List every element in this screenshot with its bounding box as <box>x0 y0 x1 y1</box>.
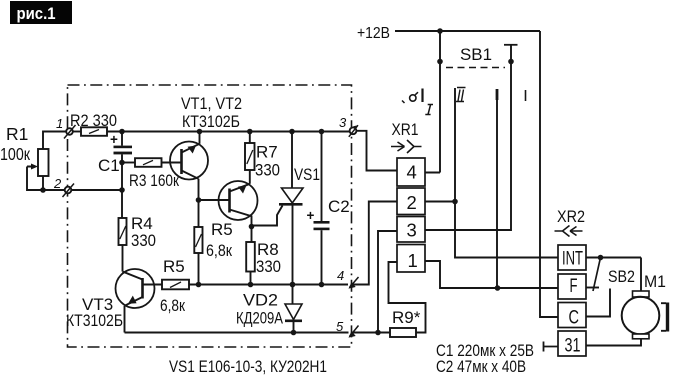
svg-text:КТ3102Б: КТ3102Б <box>182 112 240 131</box>
wire lower rail <box>125 332 349 334</box>
svg-text:330: 330 <box>256 257 281 276</box>
wire top rail + <box>107 131 350 133</box>
wire SB1 I contact down to F line <box>496 89 498 288</box>
transistor VT1 <box>170 94 242 180</box>
wire bottom rail <box>189 284 348 286</box>
connector XR2 pin INT <box>558 245 586 270</box>
wire VT1 emitter to rail <box>199 132 201 144</box>
svg-text:2: 2 <box>407 192 417 213</box>
diode VD2 КД209А <box>236 285 302 333</box>
connector XR1 pin 4 <box>397 158 425 186</box>
node contact 2 branch junction <box>119 187 125 193</box>
svg-text:VS1 Е106-10-3, КУ202Н1: VS1 Е106-10-3, КУ202Н1 <box>169 357 327 376</box>
connector XR2 <box>555 207 586 237</box>
node 1 (contact 1) <box>56 116 76 139</box>
wire R1 bottom <box>42 176 44 190</box>
node F line junction <box>495 285 501 291</box>
svg-text:рис.1: рис.1 <box>17 4 56 23</box>
node pin2 II junction <box>452 199 458 205</box>
resistor R3 160к <box>122 158 182 190</box>
svg-text:F: F <box>570 276 578 297</box>
thyristor VS1 <box>252 132 321 285</box>
svg-text:R9*: R9* <box>392 308 421 327</box>
dash-dot enclosure border <box>68 85 352 347</box>
svg-text:C: C <box>569 308 580 329</box>
svg-text:М1: М1 <box>644 272 666 291</box>
wire XR2 C to SB2 contact <box>586 289 610 317</box>
svg-text:100к: 100к <box>0 144 30 164</box>
connector XR2 pin 31 <box>558 331 586 357</box>
wire +12В to XR1 pin 4 <box>425 31 440 173</box>
wire left column down to R4 <box>121 163 123 219</box>
node VS1 anode rail junction <box>289 129 295 135</box>
capacitor C2 (polarized) <box>307 132 350 285</box>
node R7 rail junction <box>247 129 253 135</box>
svg-text:3: 3 <box>407 220 417 241</box>
svg-text:КТ3102Б: КТ3102Б <box>66 311 123 330</box>
svg-text:330: 330 <box>131 231 156 250</box>
svg-text:4: 4 <box>337 268 344 283</box>
wire VT3 collector to R4 <box>122 245 124 272</box>
svg-text:31: 31 <box>565 336 581 357</box>
wire VT1 collector down <box>198 179 200 200</box>
node 5 (contact 5) <box>336 319 359 338</box>
motor M1 <box>586 258 668 346</box>
resistor R2 330 <box>70 111 117 136</box>
svg-text:VD2: VD2 <box>243 291 278 310</box>
node C1 top rail junction <box>119 129 125 135</box>
+12В supply <box>357 25 540 42</box>
svg-text:XR1: XR1 <box>392 120 419 139</box>
svg-text:VT1, VT2: VT1, VT2 <box>181 94 242 113</box>
svg-text:330: 330 <box>255 161 280 180</box>
svg-text:2: 2 <box>53 176 62 191</box>
resistor R7 330 <box>245 132 280 184</box>
wire SB1 pole to XR1 pin3 <box>425 45 511 230</box>
svg-text:5: 5 <box>336 319 344 334</box>
svg-text:+: + <box>307 208 315 223</box>
svg-text:3: 3 <box>339 115 347 130</box>
wire contact 5 to R9 <box>352 332 390 334</box>
node C2 bottom junction <box>319 282 325 288</box>
resistor R9* <box>390 308 421 337</box>
wire +12В right corner down to XR2 C <box>540 31 558 317</box>
svg-text:6,8к: 6,8к <box>160 296 185 315</box>
svg-text:INT: INT <box>562 249 583 270</box>
node 2 (contact 2) <box>53 176 74 197</box>
node VS1 cathode junction <box>290 282 296 288</box>
svg-text:R5: R5 <box>163 257 185 276</box>
svg-text:+12В: +12В <box>357 25 390 42</box>
svg-text:С2 47мк х 40В: С2 47мк х 40В <box>436 357 526 376</box>
switch SB2 <box>586 255 641 291</box>
R1 wiper arm <box>27 164 65 191</box>
svg-text:C2: C2 <box>328 197 350 216</box>
transistor VT3 <box>66 269 155 330</box>
svg-text:R5: R5 <box>211 220 233 239</box>
wire SB1 II to XR2 INT <box>455 88 558 258</box>
wire XR1 pin1 to XR2 F <box>425 261 558 288</box>
node 4 (contact 4) <box>337 268 359 289</box>
node R9 branch junction <box>375 330 381 336</box>
wire VT3 emitter down <box>124 306 126 333</box>
node VT2 collector junction <box>249 224 255 230</box>
connector XR1 pin 2 <box>397 188 425 215</box>
switch SB1 <box>402 45 526 115</box>
terminal 31 stub <box>544 342 559 352</box>
wire XR1 pin2 right <box>425 201 455 203</box>
resistor R8 330 <box>246 227 281 285</box>
node VD2 bottom junction <box>291 330 297 336</box>
resistor R5 6,8к (vertical) <box>194 200 232 285</box>
svg-text:R7: R7 <box>256 143 278 162</box>
svg-text:SB1: SB1 <box>460 45 492 64</box>
wire R9 wrap to XR1 pin 1 left <box>389 262 426 333</box>
svg-text:1: 1 <box>408 250 418 271</box>
node R5 bottom junction <box>196 282 202 288</box>
connector XR1 pin 1 <box>397 245 425 273</box>
node R8 bottom junction <box>248 282 254 288</box>
wire XR1 pin 3 to contact 5 node <box>378 231 397 333</box>
resistor R1 (potentiometer) <box>0 124 49 176</box>
svg-text:VS1: VS1 <box>294 165 320 184</box>
node R3 branch junction <box>119 160 125 166</box>
connector XR2 pin C <box>558 303 586 329</box>
node VT1 emitter rail junction <box>197 129 203 135</box>
svg-text:4: 4 <box>407 162 417 183</box>
connector XR2 pin F <box>558 274 586 299</box>
node VD2 top junction <box>290 282 296 288</box>
svg-text:+: + <box>110 132 118 147</box>
wire R1 top to contact 1 <box>43 132 67 150</box>
connector XR1 pin 3 <box>397 217 425 243</box>
resistor R5 6,8к (horizontal, base of VT3) <box>143 257 190 315</box>
transistor VT2 <box>199 181 258 227</box>
svg-text:XR2: XR2 <box>557 207 585 226</box>
note C1 C2 values <box>436 341 534 376</box>
figure label рис.1 <box>10 1 72 24</box>
svg-text:R3 160к: R3 160к <box>129 171 179 190</box>
node VT1-VT2 junction <box>196 197 202 203</box>
svg-text:SB2: SB2 <box>608 267 635 286</box>
node R1 bottom junction <box>40 187 46 193</box>
svg-text:R1: R1 <box>6 124 28 144</box>
wire contact 2 to column <box>72 189 123 191</box>
connector XR1 <box>391 120 422 153</box>
wire XR1 pin 2 to contact 4 <box>352 202 397 285</box>
node +12В junction <box>437 28 443 34</box>
node C2 rail junction <box>319 129 325 135</box>
wire contact 3 to XR1 pin 4 <box>357 131 398 171</box>
svg-text:6,8к: 6,8к <box>206 241 232 260</box>
svg-text:1: 1 <box>56 116 63 131</box>
capacitor C1 (polarized) <box>98 132 132 176</box>
node 3 (contact 3) <box>339 115 358 137</box>
svg-text:C1: C1 <box>98 156 120 175</box>
svg-text:КД209А: КД209А <box>236 309 284 328</box>
resistor R4 330 <box>119 214 157 250</box>
